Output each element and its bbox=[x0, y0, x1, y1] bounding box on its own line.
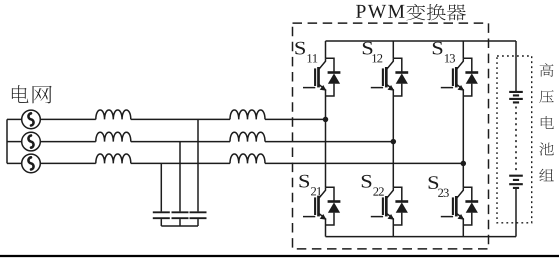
wire: S11 diode branch jogs bbox=[326, 58, 335, 96]
transistor S21 (IGBT) bbox=[303, 187, 326, 220]
battery B2 bbox=[509, 176, 523, 188]
wire: top rail down to battery B1 bbox=[515, 41, 517, 91]
inductor L12 bbox=[96, 132, 131, 141]
wire: leg 3 top rail to upper cell bbox=[462, 41, 464, 58]
bottom rule line bbox=[0, 255, 559, 257]
wire: phase 2 to leg 2 bbox=[265, 141, 393, 143]
capacitor C1 bbox=[190, 212, 207, 218]
inductor L21 bbox=[230, 110, 265, 119]
diode D22 (antiparallel) bbox=[395, 202, 408, 213]
inductor L23 bbox=[230, 154, 265, 163]
node: phase 3 junction bbox=[461, 161, 467, 167]
battery B1 bbox=[509, 92, 523, 103]
diode D13 (antiparallel) bbox=[465, 73, 478, 84]
wire: C3 bottom stub bbox=[160, 219, 162, 226]
transistor S12 (IGBT) bbox=[371, 58, 394, 90]
wire: DC bottom rail bbox=[326, 236, 517, 238]
AC source G2 (grid phase) bbox=[22, 132, 41, 151]
wire: leg 3 lower cell to bottom rail bbox=[462, 218, 464, 236]
wire: phase 3 L13 to L23 bbox=[131, 162, 230, 164]
wire: S22 diode branch jogs bbox=[393, 187, 402, 225]
wire: capacitor star bus bbox=[161, 225, 198, 227]
wire: phase 2 source to L12 bbox=[40, 141, 96, 143]
label: 电网 (grid) bbox=[12, 85, 52, 103]
wire: S23 diode branch jogs bbox=[463, 187, 472, 225]
wire: phase 3 source to L13 bbox=[40, 162, 96, 164]
wire: S21 diode branch jogs bbox=[326, 187, 335, 225]
inductor L13 bbox=[96, 154, 131, 163]
AC source G3 (grid phase) bbox=[22, 154, 41, 173]
node: phase 1 junction bbox=[323, 117, 329, 123]
PWM converter dashed box bbox=[293, 23, 489, 249]
diode D21 (antiparallel) bbox=[328, 202, 341, 213]
inductor L11 bbox=[96, 110, 131, 119]
battery pack dotted box bbox=[497, 56, 532, 223]
transistor S22 (IGBT) bbox=[371, 187, 394, 220]
wire: leg 2 lower cell to bottom rail bbox=[392, 218, 394, 236]
wire: S12 diode branch jogs bbox=[393, 58, 402, 96]
wire: leg 2 midsection bbox=[392, 89, 394, 187]
label S12 bbox=[363, 42, 383, 63]
transistor S23 (IGBT) bbox=[441, 187, 464, 220]
inductor L22 bbox=[230, 132, 265, 141]
diode D12 (antiparallel) bbox=[395, 73, 408, 84]
wire: left vertical bus bbox=[6, 119, 8, 163]
label S23 bbox=[429, 176, 449, 197]
diode D23 (antiparallel) bbox=[465, 202, 478, 213]
wire: battery B2 down to bottom rail bbox=[515, 189, 517, 237]
wire: tap to C3 bbox=[160, 163, 162, 211]
wire: phase 1 L11 to L21 bbox=[131, 118, 230, 120]
label: 高压电池组 (HV battery pack) bbox=[539, 63, 554, 181]
wire: S13 diode branch jogs bbox=[463, 58, 472, 96]
wire: phase 1 to leg 1 bbox=[265, 118, 326, 120]
wire: phase 3 to leg 3 bbox=[265, 162, 463, 164]
node: phase 2 junction bbox=[391, 139, 397, 145]
AC source G1 (grid phase) bbox=[22, 110, 41, 129]
wire: leg 3 midsection bbox=[462, 89, 464, 187]
wire: leg 2 top rail to upper cell bbox=[392, 41, 394, 58]
wire: phase 2 L12 to L22 bbox=[131, 141, 230, 143]
wire: tap to C1 bbox=[197, 119, 199, 211]
label S22 bbox=[362, 175, 384, 196]
wire: phase 3 stub bus to source bbox=[7, 162, 22, 164]
wire: DC top rail bbox=[326, 40, 517, 42]
transistor S11 (IGBT) bbox=[303, 58, 326, 90]
capacitor C2 bbox=[172, 212, 189, 218]
wire: phase 1 stub bus to source bbox=[7, 118, 22, 120]
wire: leg 1 midsection bbox=[325, 89, 327, 187]
label S21 bbox=[299, 175, 321, 196]
transistor S13 (IGBT) bbox=[441, 58, 464, 90]
capacitor C3 bbox=[153, 212, 170, 218]
wire: dotted series link between cells bbox=[515, 107, 517, 173]
wire: phase 1 source to L11 bbox=[40, 118, 96, 120]
label S13 bbox=[433, 42, 455, 63]
wire: C1 bottom stub bbox=[197, 219, 199, 226]
wire: phase 2 stub bus to source bbox=[7, 141, 22, 143]
label: PWM变换器 title bbox=[356, 4, 466, 21]
wire: C2 bottom stub bbox=[179, 219, 181, 226]
wire: leg 1 top rail to upper cell bbox=[325, 41, 327, 58]
wire: leg 1 lower cell to bottom rail bbox=[325, 218, 327, 236]
diode D11 (antiparallel) bbox=[328, 73, 341, 84]
wire: tap to C2 bbox=[179, 142, 181, 212]
label S11 bbox=[295, 42, 317, 63]
